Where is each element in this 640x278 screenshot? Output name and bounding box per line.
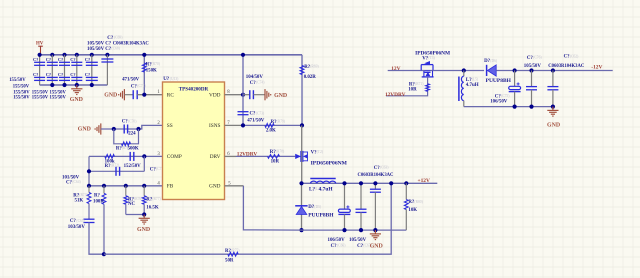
svg-text:10R: 10R [408, 87, 417, 92]
svg-text:C?: C? [58, 57, 63, 62]
node top rail junction 4 [75, 53, 79, 57]
svg-text:(R77): (R77) [152, 197, 161, 201]
capacitor C? 104/50V [249, 90, 251, 99]
svg-text:(C66): (C66) [337, 244, 346, 248]
wire pin5 gnd to output bottom rail [243, 186, 406, 230]
svg-text:10R: 10R [271, 160, 280, 165]
svg-text:(R75): (R75) [231, 249, 240, 253]
svg-text:(L5): (L5) [472, 78, 479, 82]
svg-text:152/50V: 152/50V [124, 164, 142, 169]
svg-text:COMP: COMP [167, 154, 182, 160]
ground VDD [264, 89, 266, 100]
wire ISNS to sense [243, 124, 302, 126]
inductor L? 4.7uH [311, 181, 336, 183]
svg-text:0.02R: 0.02R [304, 75, 317, 80]
svg-text:(C70): (C70) [128, 119, 137, 123]
node top rail junction 3 [62, 53, 66, 57]
capacitor C? input row2 col5 [86, 76, 98, 78]
svg-text:155/50V: 155/50V [9, 78, 26, 83]
wire R51K to cap [88, 204, 90, 220]
wire HV down to ISNS [301, 55, 303, 126]
wire COMP loop left [88, 156, 90, 185]
svg-text:(R71): (R71) [415, 82, 424, 86]
svg-text:C?: C? [33, 72, 38, 77]
wire COMP loop right [143, 156, 145, 171]
capacitor C? 106/50V electrolytic [344, 183, 346, 209]
svg-text:GND: GND [370, 244, 383, 250]
diode D? PUUP8BH shottky [301, 183, 303, 206]
svg-text:16.5K: 16.5K [146, 206, 159, 211]
node RC junction [142, 93, 146, 97]
svg-text:-12V: -12V [591, 64, 602, 70]
svg-text:SS: SS [167, 123, 173, 129]
node bottom rail junction 2 [50, 83, 54, 87]
node COMP loop [87, 169, 91, 173]
svg-text:10K: 10K [408, 208, 417, 213]
svg-text:12VDRV: 12VDRV [237, 152, 258, 158]
ground input bank [76, 85, 78, 89]
svg-text:(T2): (T2) [317, 150, 324, 154]
node COMP junction [142, 154, 146, 158]
capacitor C? 103/50V [84, 218, 95, 220]
svg-text:(R73): (R73) [79, 193, 88, 197]
capacitor C? input row2 col1 [34, 76, 45, 78]
capacitor C? input row1 col5 [86, 61, 98, 63]
svg-text:TPS40200DR: TPS40200DR [179, 87, 209, 93]
svg-text:C0603R104K3AC: C0603R104K3AC [358, 173, 395, 178]
svg-text:GND: GND [78, 126, 91, 132]
svg-text:RC: RC [167, 92, 175, 98]
svg-text:FB: FB [167, 184, 174, 190]
node bottom rail junction 3 [62, 83, 66, 87]
svg-text:C?: C? [70, 57, 75, 62]
resistor R? 10K load [404, 181, 408, 185]
wire R500K loop [114, 129, 139, 144]
node ISNS corner [300, 123, 304, 127]
resistor R? 50R [228, 252, 238, 256]
svg-text:2.0K: 2.0K [266, 129, 276, 134]
svg-text:155/50V: 155/50V [13, 96, 30, 101]
capacitor C? input row2 col3 [59, 76, 70, 78]
svg-text:+12V: +12V [418, 178, 430, 184]
svg-text:(D5): (D5) [314, 205, 322, 209]
svg-text:105/50V: 105/50V [524, 64, 542, 69]
svg-text:(U13): (U13) [170, 77, 179, 81]
transistor Q2 IPD650P06NM top-right [421, 64, 433, 66]
svg-text:NC: NC [128, 202, 136, 207]
wire pin5 stub [225, 185, 244, 187]
svg-text:155/50V: 155/50V [32, 96, 49, 101]
wire SS net [101, 125, 163, 129]
inductor core bar [310, 178, 335, 180]
svg-text:4.7uH: 4.7uH [319, 187, 334, 193]
wire PMOS to diode [433, 70, 484, 72]
wire NC/16.5K bottoms [126, 214, 144, 216]
node gnd 16.5K [142, 212, 146, 216]
capacitor C? input row1 col4 [71, 61, 82, 63]
svg-text:(C76): (C76) [533, 56, 542, 60]
svg-text:(C75): (C75) [501, 94, 510, 98]
wire gate to 12VDRV [386, 77, 428, 96]
svg-text:(D6): (D6) [490, 59, 498, 63]
node bottom rail junction 4 [75, 83, 79, 87]
node L2 top [462, 68, 466, 72]
capacitor C? 224 [123, 125, 125, 134]
wire bottom rail of cap bank [40, 84, 108, 86]
wire cap to pin RC [137, 94, 162, 96]
svg-text:GND: GND [104, 93, 117, 99]
wire cap to bottom rail [89, 222, 104, 254]
node VDD junction [241, 93, 245, 97]
wire pin7 ISNS stub [225, 124, 244, 126]
svg-text:150K: 150K [146, 68, 157, 73]
capacitor C? input row1 col1 [34, 61, 45, 63]
resistor R? 16.5K [143, 186, 145, 196]
wire column 4 [76, 55, 78, 85]
svg-text:(R70): (R70) [152, 62, 161, 66]
svg-text:104/50V: 104/50V [246, 75, 264, 80]
svg-text:(C69): (C69) [114, 35, 123, 39]
svg-text:51K: 51K [75, 199, 84, 204]
capacitor C? input row2 col4 [71, 76, 82, 78]
svg-text:106/50V: 106/50V [328, 238, 346, 243]
resistor R? 150K [142, 63, 146, 72]
svg-text:(C71): (C71) [137, 84, 146, 88]
wire +12V output rail [302, 182, 438, 184]
svg-text:C?: C? [46, 57, 51, 62]
node diode anode [299, 228, 303, 232]
wire R100K down [103, 204, 105, 254]
capacitor C? C0603R104K3AC input [101, 58, 113, 60]
svg-text:GND: GND [209, 184, 221, 190]
capacitor C? 106/50V right electrolytic [513, 68, 517, 72]
svg-text:(C64): (C64) [72, 180, 81, 184]
resistor R? 100K [103, 186, 105, 194]
node SS left [112, 127, 116, 131]
svg-text:C?: C? [46, 72, 51, 77]
svg-text:GND: GND [274, 93, 287, 99]
wire R150K column [143, 55, 145, 95]
wire HV to VDD/ISNS column [242, 55, 244, 126]
node SS right [136, 127, 140, 131]
wire column 6 [106, 55, 108, 85]
resistor R? 500K [122, 142, 131, 146]
node bottom rail junction 5 [90, 83, 94, 87]
svg-text:106/50V: 106/50V [490, 100, 508, 105]
svg-text:R?: R? [94, 194, 101, 199]
wire column 3 [64, 55, 66, 85]
wire HV top rail [40, 54, 302, 56]
svg-text:103/50V: 103/50V [68, 225, 86, 230]
svg-text:(C65): (C65) [76, 219, 85, 223]
svg-text:C?: C? [70, 72, 75, 77]
capacitor C? C0603R104K3AC [374, 183, 376, 189]
node sw [299, 181, 303, 185]
svg-text:224: 224 [128, 131, 136, 136]
svg-text:(C74): (C74) [256, 81, 265, 85]
svg-text:(R79): (R79) [277, 120, 286, 124]
inductor L? 4.7uH right [463, 71, 465, 77]
svg-text:C?: C? [85, 57, 90, 62]
svg-text:471/50V: 471/50V [122, 78, 140, 83]
wire pin8 VDD [225, 94, 244, 96]
resistor R? NC [125, 186, 127, 196]
diode D? PUUP8BH right [486, 65, 488, 76]
inductor core bar right [458, 77, 460, 102]
ground -12V rail [552, 107, 554, 111]
capacitor C? input row1 col3 [59, 61, 70, 63]
capacitor C? 105/50V [360, 183, 362, 209]
capacitor C? 471/50V at RC [132, 90, 134, 99]
node top rail junction 1 [38, 53, 42, 57]
capacitor C? 471/50V at ISNS [238, 111, 249, 113]
wire pin6 DRV stub [225, 155, 237, 157]
resistor R? 2.0K [265, 124, 274, 128]
svg-text:500K: 500K [128, 146, 139, 151]
node top rail junction 5 [90, 53, 94, 57]
capacitor C? 101/50V [115, 167, 117, 176]
wire FB net [89, 185, 163, 187]
svg-text:PUUP8BH: PUUP8BH [308, 213, 334, 219]
svg-text:100K: 100K [93, 199, 104, 204]
svg-text:(C68): (C68) [112, 46, 121, 50]
svg-text:IPD650P06NM: IPD650P06NM [311, 161, 348, 167]
resistor R? 10R at DRV [268, 155, 280, 159]
svg-text:C0603R104K3AC: C0603R104K3AC [548, 64, 585, 69]
wire 12V to PMOS [388, 70, 433, 72]
node ISNS junction [241, 123, 245, 127]
svg-text:DRV: DRV [210, 154, 221, 160]
svg-text:(C63): (C63) [380, 166, 389, 170]
svg-text:C?: C? [107, 36, 114, 41]
node top rail junction 2 [50, 53, 54, 57]
wire DRV to gate [236, 155, 295, 157]
svg-text:C?: C? [33, 57, 38, 62]
ground FB divider [143, 215, 145, 219]
svg-text:(R80): (R80) [414, 200, 423, 204]
capacitor C? 105/50V right [529, 68, 533, 72]
node bottom rail R100K [102, 252, 106, 256]
svg-text:(R78): (R78) [276, 150, 285, 154]
svg-text:U?: U? [163, 77, 170, 82]
capacitor C? input row2 col2 [47, 76, 58, 78]
resistor R? 51K [88, 186, 90, 193]
capacitor C? input row1 col2 [47, 61, 58, 63]
svg-text:(R69): (R69) [310, 65, 319, 69]
resistor R? 0.02R [300, 66, 304, 75]
svg-text:(C73): (C73) [256, 111, 265, 115]
svg-text:105/50V C?: 105/50V C? [87, 47, 112, 52]
ground RC [123, 89, 125, 100]
ground SS [100, 123, 102, 134]
svg-text:(T3): (T3) [428, 56, 435, 60]
svg-text:105/50V: 105/50V [349, 238, 367, 243]
svg-text:GND: GND [70, 97, 83, 103]
svg-text:(C62): (C62) [570, 54, 579, 58]
wire column 2 [51, 55, 53, 85]
ground output [374, 230, 376, 234]
op-amp U1 TPS40200DR [163, 82, 225, 200]
transistor Q1 IPD650P06NM main switch [301, 125, 303, 183]
svg-text:VDD: VDD [209, 92, 221, 98]
wire diode to -12V [496, 70, 612, 72]
svg-text:12VDRV: 12VDRV [385, 92, 406, 98]
wire -12V gnd rail [464, 106, 553, 108]
svg-text:GND: GND [137, 227, 150, 233]
wire COMP net [89, 155, 163, 157]
wire gnd to cap [124, 94, 133, 96]
capacitor C? C0603R104K3AC right [551, 68, 555, 72]
svg-text:105/50V C?: 105/50V C? [87, 41, 112, 46]
svg-text:155/50V: 155/50V [13, 84, 30, 89]
node top rail junction 6 [105, 53, 109, 57]
wire column 5 [91, 55, 93, 85]
svg-text:ISNS: ISNS [209, 123, 221, 129]
svg-text:471/50V: 471/50V [247, 119, 265, 124]
svg-text:4.7uH: 4.7uH [466, 83, 479, 88]
svg-text:C?: C? [85, 72, 90, 77]
capacitor C? 152/50V [129, 152, 131, 161]
resistor R? 100k [105, 155, 115, 159]
wire left column [39, 55, 41, 85]
svg-text:155/50V: 155/50V [50, 96, 67, 101]
svg-text:50R: 50R [225, 259, 234, 264]
wire feedback tap +12V to divider [104, 183, 391, 254]
svg-text:GND: GND [547, 122, 560, 128]
svg-text:PUUP8BH: PUUP8BH [486, 78, 512, 84]
svg-text:C?: C? [58, 72, 63, 77]
wire COMP loop bottom [89, 170, 144, 172]
